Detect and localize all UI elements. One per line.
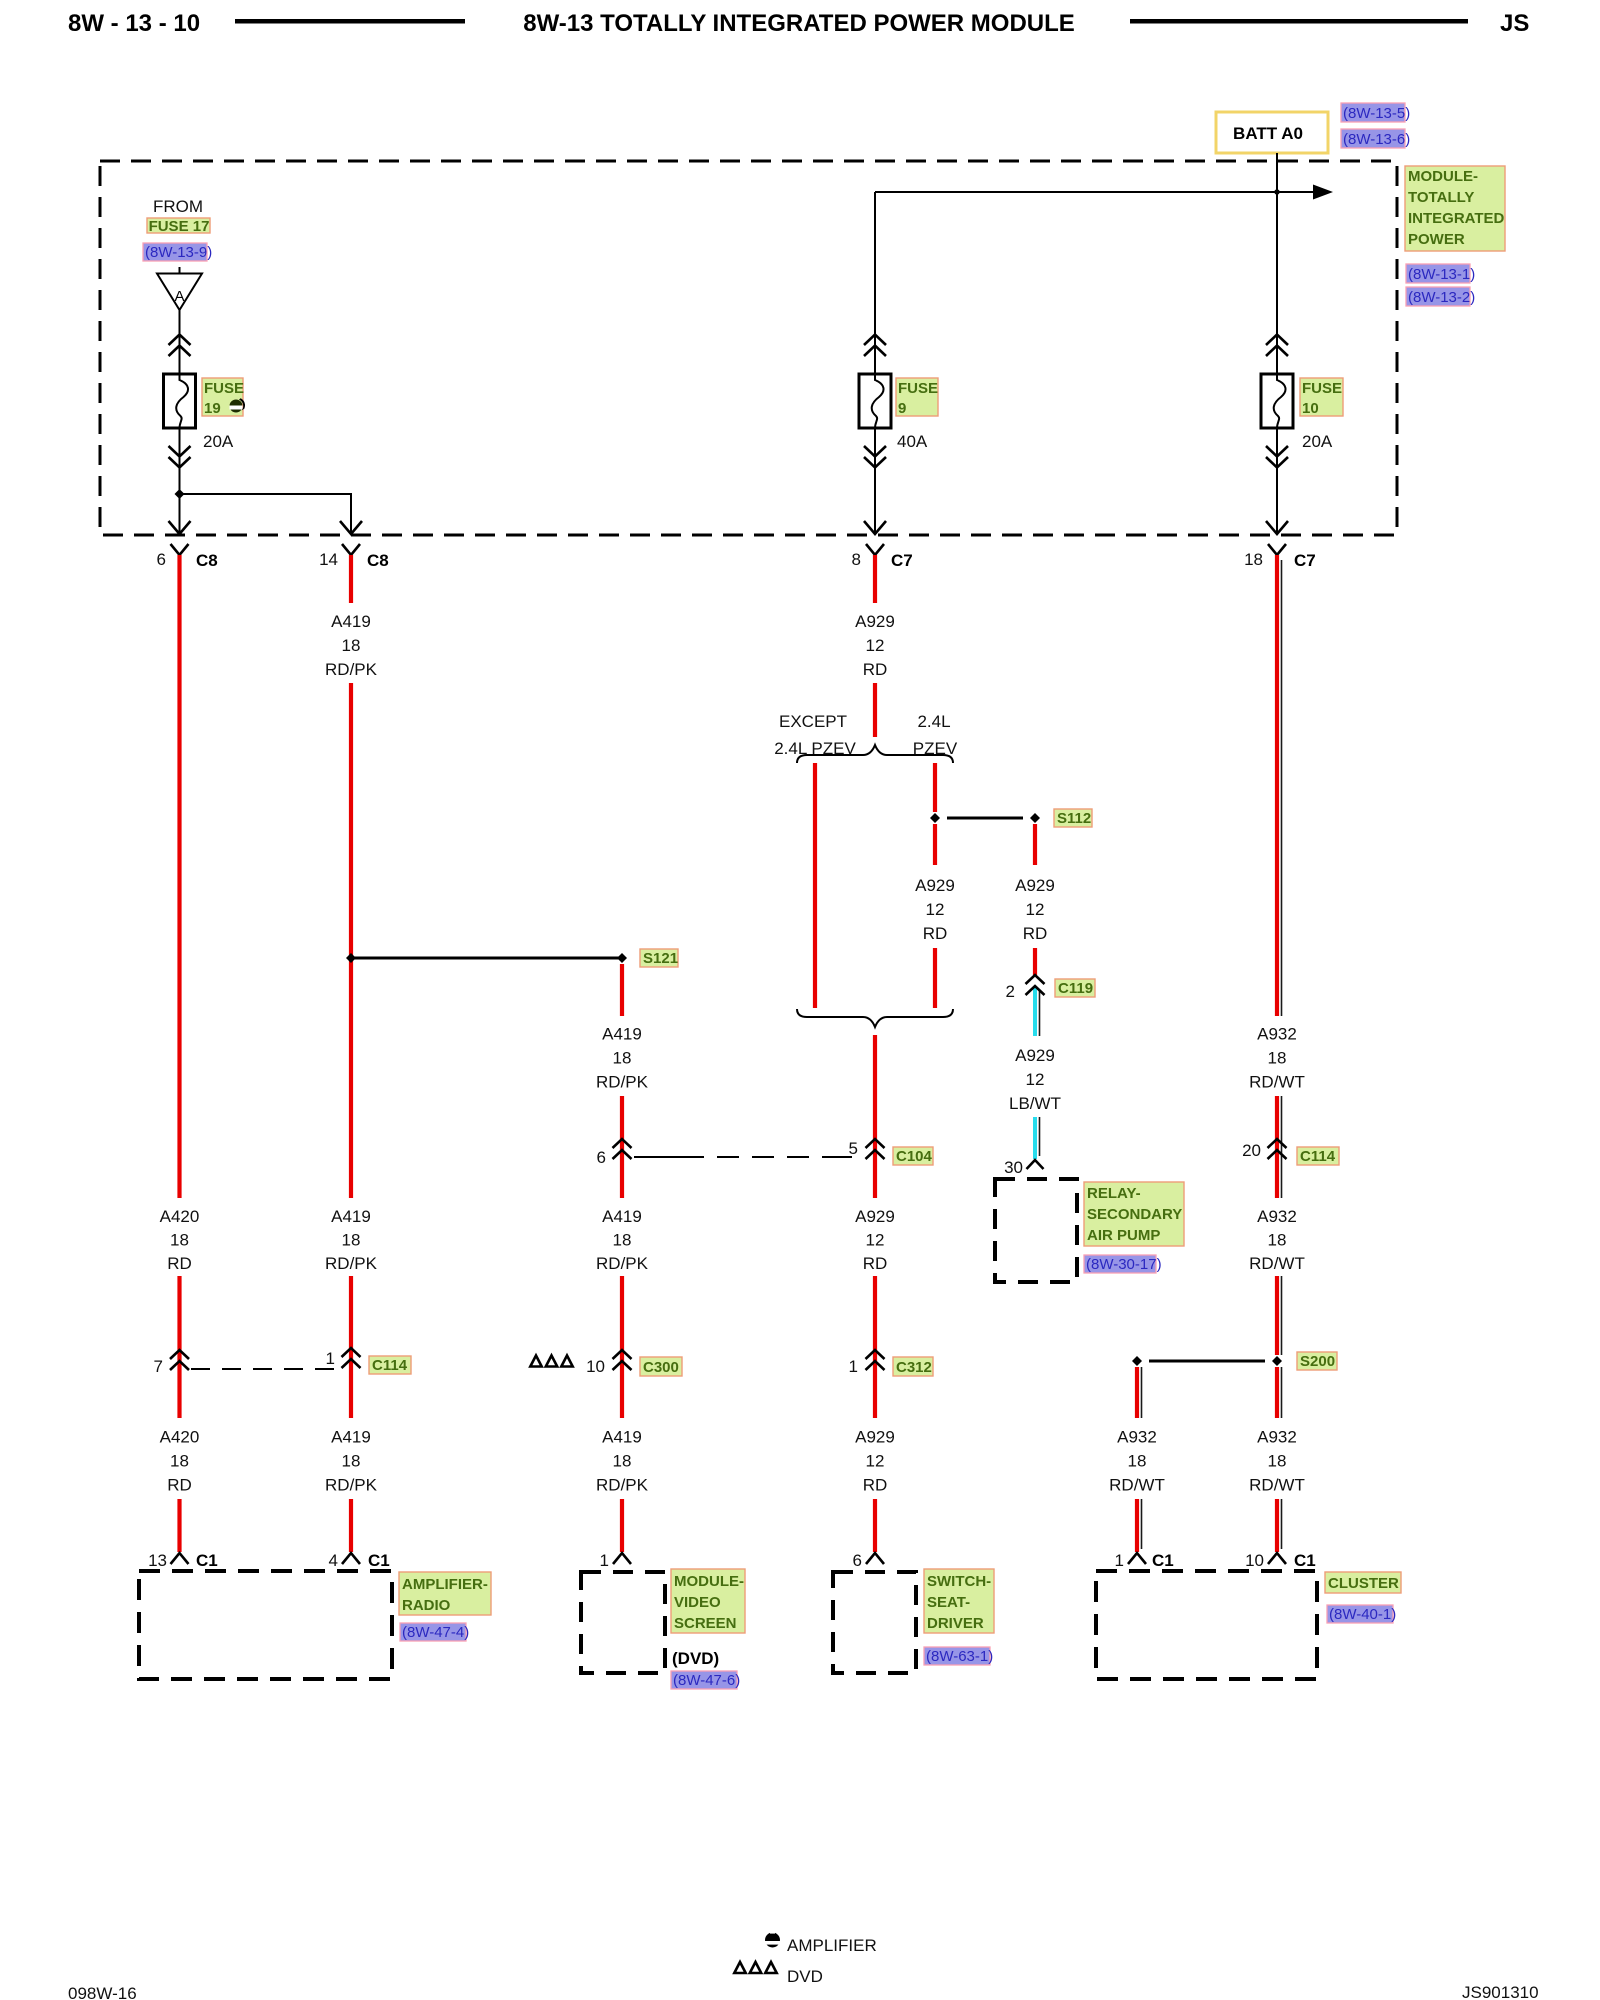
svg-text:EXCEPT: EXCEPT — [779, 712, 847, 731]
svg-text:C114: C114 — [372, 1357, 408, 1374]
amplifier-radio dashed box — [139, 1571, 392, 1679]
feed wire to fuse 9 with junction arrow — [875, 191, 1313, 193]
svg-text:RD: RD — [167, 1476, 192, 1495]
svg-text:1: 1 — [849, 1357, 858, 1376]
svg-text:A419: A419 — [602, 1025, 642, 1044]
exit arrowhead at C8 pin 6 — [169, 521, 191, 534]
svg-text:A929: A929 — [1015, 1046, 1055, 1065]
svg-text:(8W-63-1): (8W-63-1) — [926, 1648, 993, 1665]
fuse 19 rating 20A — [203, 432, 234, 451]
component label AMPLIFIER-RADIO — [399, 1572, 491, 1615]
wire label A420 18 RD lower — [160, 1428, 200, 1495]
reference label (8W-13-9) — [143, 243, 212, 261]
svg-text:18: 18 — [613, 1231, 632, 1250]
svg-text:FUSE: FUSE — [204, 380, 244, 397]
svg-text:(8W-13-6): (8W-13-6) — [1343, 131, 1410, 148]
component label RELAY-SECONDARY AIR PUMP — [1084, 1182, 1184, 1246]
connector cluster C1 pin 10 — [1245, 1551, 1316, 1570]
svg-text:(8W-47-6): (8W-47-6) — [673, 1672, 740, 1689]
connector label C300 — [640, 1357, 682, 1376]
svg-text:VIDEO: VIDEO — [674, 1594, 721, 1611]
svg-text:18: 18 — [1268, 1231, 1287, 1250]
svg-text:C300: C300 — [643, 1359, 679, 1376]
wire label A419 18 RD/PK lower — [325, 1428, 378, 1495]
wire label A929 12 RD PZEV branch — [915, 876, 955, 943]
svg-text:A419: A419 — [331, 612, 371, 631]
wire A929 RD except-PZEV branch — [813, 763, 817, 1008]
footer sheet number 098W-16 — [68, 1984, 137, 2000]
wire from triangle A to fuse 19 — [179, 310, 181, 374]
wire label A932 18 RD/WT mid — [1249, 1207, 1305, 1273]
connector C8 pin 6 — [157, 544, 218, 570]
splice S200 junction right — [1272, 1356, 1282, 1366]
svg-text:DVD: DVD — [787, 1967, 823, 1986]
splice label S121 — [640, 949, 678, 967]
cluster dashed box — [1096, 1571, 1317, 1679]
splice label S112 — [1054, 809, 1092, 827]
reference label (8W-40-1) — [1327, 1605, 1396, 1623]
svg-text:10: 10 — [586, 1357, 605, 1376]
svg-text:SECONDARY: SECONDARY — [1087, 1206, 1182, 1223]
wire fuse 19 to junction — [179, 428, 181, 494]
svg-text:LB/WT: LB/WT — [1009, 1094, 1061, 1113]
legend DVD triangles — [734, 1962, 776, 1973]
connector label C114 lower — [369, 1356, 411, 1374]
connector chevrons above fuse 9 — [864, 335, 886, 357]
fuse F9 symbol — [859, 374, 891, 428]
splice S112 junction right — [1030, 813, 1040, 823]
wire A929 RD PZEV branch below S112 — [933, 824, 937, 865]
svg-text:A419: A419 — [331, 1428, 371, 1447]
fuse F19 symbol — [164, 374, 196, 428]
svg-text:RADIO: RADIO — [402, 1597, 451, 1614]
svg-text:2: 2 — [1006, 982, 1015, 1001]
svg-text:12: 12 — [866, 636, 885, 655]
splice S112 junction left — [930, 813, 940, 823]
wire label A420 18 RD — [160, 1207, 200, 1273]
svg-text:CLUSTER: CLUSTER — [1328, 1575, 1399, 1592]
connector C1 pin 13 — [148, 1551, 218, 1570]
wire A929 RD S112 branch upper — [1033, 824, 1037, 865]
wire A929 RD to C119 — [1033, 948, 1037, 975]
svg-text:MODULE-: MODULE- — [1408, 168, 1478, 185]
svg-text:2.4L: 2.4L — [917, 712, 950, 731]
connector label C312 — [893, 1357, 933, 1376]
connector C312 pin 1 chevrons — [849, 1350, 885, 1376]
svg-text:C104: C104 — [896, 1148, 933, 1165]
fuse 10 rating 20A — [1302, 432, 1333, 451]
svg-text:RD/PK: RD/PK — [325, 1476, 378, 1495]
connector chevrons below fuse 19 — [169, 446, 191, 468]
exit arrowhead at C7 pin 8 — [864, 521, 886, 534]
connector label C119 — [1055, 979, 1095, 997]
module TIPM dashed boundary box — [100, 161, 1397, 535]
svg-text:12: 12 — [1026, 1070, 1045, 1089]
svg-text:18: 18 — [342, 1452, 361, 1471]
svg-text:C8: C8 — [196, 551, 218, 570]
svg-text:A929: A929 — [855, 612, 895, 631]
connector C7 pin 18 — [1244, 544, 1316, 570]
wire label A929 12 RD top — [855, 612, 895, 679]
text EXCEPT 2.4L PZEV — [774, 712, 856, 758]
svg-text:POWER: POWER — [1408, 231, 1465, 248]
svg-text:19: 19 — [204, 400, 221, 417]
svg-text:A929: A929 — [915, 876, 955, 895]
svg-text:JS901310: JS901310 — [1462, 1983, 1539, 2000]
svg-text:SEAT-: SEAT- — [927, 1594, 970, 1611]
connector C7 pin 8 — [852, 544, 913, 570]
connector box BATT A0 — [1216, 112, 1328, 153]
svg-text:RD/PK: RD/PK — [596, 1254, 649, 1273]
connector C104 pin 5 chevrons — [849, 1139, 885, 1159]
legend text DVD — [787, 1967, 823, 1986]
branch wire junction to C8 pin 14 exit — [180, 494, 352, 533]
svg-text:7: 7 — [154, 1357, 163, 1376]
fuse label FUSE 10 — [1300, 378, 1343, 417]
wire label A929 12 LB/WT — [1009, 1046, 1061, 1113]
svg-text:18: 18 — [170, 1231, 189, 1250]
svg-text:RD/WT: RD/WT — [1249, 1254, 1305, 1273]
svg-text:(8W-47-4): (8W-47-4) — [402, 1624, 469, 1641]
svg-text:S112: S112 — [1057, 810, 1091, 827]
wire label A419 18 RD/PK above C300 — [596, 1207, 649, 1273]
svg-text:(8W-13-1): (8W-13-1) — [1408, 266, 1475, 283]
wire A929 LB/WT lower segment — [1035, 1117, 1040, 1159]
wire A419 RD/PK segment to video module — [620, 1499, 624, 1552]
svg-text:RD: RD — [863, 1254, 888, 1273]
svg-text:18: 18 — [1244, 550, 1263, 569]
reference label (8W-13-1) — [1406, 264, 1475, 283]
svg-text:C1: C1 — [368, 1551, 390, 1570]
svg-text:MODULE-: MODULE- — [674, 1573, 744, 1590]
svg-text:FUSE: FUSE — [1302, 380, 1342, 397]
reference label (8W-13-2) — [1406, 287, 1475, 306]
reference label (8W-13-5) — [1341, 103, 1410, 122]
svg-text:18: 18 — [613, 1452, 632, 1471]
wire label A929 12 RD above C312 — [855, 1207, 895, 1273]
reference label (8W-30-17) — [1084, 1255, 1162, 1273]
connector C104 pin 6 chevrons — [597, 1139, 632, 1167]
wire fuse 10 to C7 pin 18 exit — [1276, 428, 1278, 533]
text 2.4L PZEV — [913, 712, 958, 758]
connector C119 pin 2 chevrons — [1006, 975, 1045, 1001]
DVD triangle marks — [530, 1356, 572, 1367]
svg-text:RD/PK: RD/PK — [596, 1073, 649, 1092]
wire A420 RD segment through C114 — [177, 1276, 181, 1418]
reference label (8W-47-6) — [671, 1671, 740, 1689]
connector C114 pin 20 chevrons — [1242, 1139, 1286, 1160]
wire A932 RD/WT segment to S200 — [1277, 1276, 1282, 1355]
wire label A419 18 RD/PK S121 branch — [596, 1025, 649, 1092]
svg-text:A929: A929 — [855, 1428, 895, 1447]
svg-text:14: 14 — [319, 550, 338, 569]
svg-text:13: 13 — [148, 1551, 167, 1570]
fuse label FUSE 9 — [896, 378, 938, 417]
wire A929 RD segment through C312 — [873, 1276, 877, 1418]
svg-text:9: 9 — [898, 400, 906, 417]
svg-text:10: 10 — [1302, 400, 1319, 417]
wire A929 RD merged segment — [873, 1035, 877, 1198]
svg-text:1: 1 — [326, 1349, 335, 1368]
svg-text:12: 12 — [926, 900, 945, 919]
svg-text:AMPLIFIER: AMPLIFIER — [787, 1936, 877, 1955]
svg-text:C312: C312 — [896, 1359, 932, 1376]
connector C1 pin 4 — [329, 1551, 390, 1570]
splice S121 junction left — [346, 953, 356, 963]
svg-text:12: 12 — [1026, 900, 1045, 919]
connector cluster C1 pin 1 — [1115, 1551, 1174, 1570]
svg-text:A932: A932 — [1257, 1207, 1297, 1226]
wire label A929 12 RD bottom — [855, 1428, 895, 1495]
svg-text:AMPLIFIER-: AMPLIFIER- — [402, 1576, 488, 1593]
connector C8 pin 14 — [319, 544, 389, 570]
svg-text:SWITCH-: SWITCH- — [927, 1573, 991, 1590]
wire A419 RD/PK segment from S121 — [620, 964, 624, 1016]
svg-text:18: 18 — [1268, 1452, 1287, 1471]
connector C114 pin 7 chevrons — [154, 1350, 189, 1376]
svg-text:20A: 20A — [203, 432, 234, 451]
svg-text:6: 6 — [853, 1551, 862, 1570]
svg-text:4: 4 — [329, 1551, 338, 1570]
text FROM — [153, 197, 203, 216]
svg-text:RELAY-: RELAY- — [1087, 1185, 1141, 1202]
reference label (8W-47-4) — [400, 1623, 469, 1641]
svg-text:(8W-13-9): (8W-13-9) — [145, 244, 212, 261]
svg-text:FROM: FROM — [153, 197, 203, 216]
footer code JS901310 — [1462, 1983, 1539, 2000]
svg-text:12: 12 — [866, 1231, 885, 1250]
svg-text:JS: JS — [1500, 10, 1529, 37]
svg-text:18: 18 — [342, 636, 361, 655]
wire junction to C8 pin 6 exit — [179, 494, 181, 533]
svg-text:18: 18 — [1128, 1452, 1147, 1471]
connector video module pin 1 — [600, 1551, 631, 1570]
exit arrowhead at C7 pin 18 — [1266, 521, 1288, 534]
splice S121 link wire — [351, 957, 622, 960]
svg-text:098W-16: 098W-16 — [68, 1984, 137, 2000]
svg-text:S200: S200 — [1300, 1353, 1335, 1370]
svg-text:A929: A929 — [855, 1207, 895, 1226]
svg-text:18: 18 — [1268, 1049, 1287, 1068]
svg-text:C1: C1 — [196, 1551, 218, 1570]
svg-text:RD: RD — [167, 1254, 192, 1273]
svg-text:20: 20 — [1242, 1141, 1261, 1160]
connector chevrons below fuse 10 — [1266, 446, 1288, 468]
splice label S200 — [1297, 1352, 1337, 1370]
connector label C114 upper — [1297, 1147, 1339, 1165]
svg-text:RD/WT: RD/WT — [1109, 1476, 1165, 1495]
legend text AMPLIFIER — [787, 1936, 877, 1955]
wire A420 RD segment to C1-13 — [177, 1499, 181, 1552]
svg-text:6: 6 — [157, 550, 166, 569]
video module dashed box — [581, 1572, 665, 1673]
svg-text:A932: A932 — [1257, 1025, 1297, 1044]
wire down to fuse 9 — [874, 192, 876, 374]
wire A932 RD/WT below S200 — [1277, 1367, 1282, 1418]
connector C114 pin 1 chevrons — [326, 1348, 361, 1368]
svg-text:12: 12 — [866, 1452, 885, 1471]
wire label A932 18 RD/WT left bottom — [1109, 1428, 1165, 1495]
svg-text:A419: A419 — [331, 1207, 371, 1226]
connector C300 pin 10 chevrons — [586, 1350, 631, 1376]
svg-text:A932: A932 — [1117, 1428, 1157, 1447]
svg-text:A: A — [174, 288, 184, 305]
fuse F10 symbol — [1261, 374, 1293, 428]
svg-text:10: 10 — [1245, 1551, 1264, 1570]
svg-text:1: 1 — [600, 1551, 609, 1570]
wire A929 RD segment to seat switch — [873, 1499, 877, 1552]
dashed link C114 — [191, 1368, 338, 1370]
wire A929 RD PZEV branch upper — [933, 763, 937, 812]
seat switch dashed box — [833, 1572, 916, 1673]
svg-text:(8W-30-17): (8W-30-17) — [1086, 1256, 1162, 1273]
svg-text:8: 8 — [852, 550, 861, 569]
svg-text:DRIVER: DRIVER — [927, 1615, 984, 1632]
svg-text:RD: RD — [923, 924, 948, 943]
svg-text:INTEGRATED: INTEGRATED — [1408, 210, 1505, 227]
svg-text:1: 1 — [1115, 1551, 1124, 1570]
relay terminal 30 connector — [1004, 1158, 1043, 1177]
dashed link C104 — [634, 1156, 858, 1158]
component label MODULE-TOTALLY INTEGRATED POWER — [1405, 166, 1505, 251]
split brace upper — [797, 745, 953, 763]
fuse label FUSE 19 with amplifier icon — [202, 378, 245, 417]
wire A929 LB/WT upper segment — [1035, 986, 1040, 1036]
header rule right — [1130, 19, 1468, 24]
svg-text:RD/WT: RD/WT — [1249, 1073, 1305, 1092]
reference label (8W-63-1) — [924, 1647, 993, 1665]
svg-text:20A: 20A — [1302, 432, 1333, 451]
svg-text:S121: S121 — [643, 950, 678, 967]
splice S121 junction right — [617, 953, 627, 963]
svg-text:(8W-13-5): (8W-13-5) — [1343, 105, 1410, 122]
svg-text:40A: 40A — [897, 432, 928, 451]
exit arrowhead at C8 pin 14 — [340, 521, 362, 534]
svg-text:8W-13 TOTALLY INTEGRATED POWER: 8W-13 TOTALLY INTEGRATED POWER MODULE — [523, 10, 1075, 37]
svg-text:RD/PK: RD/PK — [325, 1254, 378, 1273]
splice S112 link wire — [947, 817, 1023, 820]
connector chevrons above fuse 10 — [1266, 335, 1288, 357]
svg-text:C8: C8 — [367, 551, 389, 570]
svg-text:(8W-40-1): (8W-40-1) — [1329, 1606, 1396, 1623]
svg-text:A419: A419 — [602, 1207, 642, 1226]
svg-text:A419: A419 — [602, 1428, 642, 1447]
junction dot below fuse 19 — [175, 489, 185, 499]
component label MODULE-VIDEO SCREEN — [671, 1569, 745, 1633]
connector chevrons below fuse 9 — [864, 446, 886, 468]
svg-text:FUSE: FUSE — [898, 380, 938, 397]
svg-text:(8W-13-2): (8W-13-2) — [1408, 289, 1475, 306]
wire A419 RD/PK segment through C114 — [349, 1276, 353, 1418]
relay dashed box — [995, 1179, 1077, 1282]
component label SWITCH-SEAT-DRIVER — [924, 1569, 994, 1633]
wire A420 RD segment from C8-6 — [177, 555, 181, 1198]
splice S200 junction left — [1132, 1356, 1142, 1366]
svg-text:18: 18 — [613, 1049, 632, 1068]
svg-text:RD/PK: RD/PK — [596, 1476, 649, 1495]
svg-text:C1: C1 — [1294, 1551, 1316, 1570]
merge brace lower — [797, 1009, 953, 1027]
component label CLUSTER — [1325, 1572, 1401, 1593]
svg-text:(DVD): (DVD) — [672, 1649, 719, 1668]
svg-text:C114: C114 — [1300, 1148, 1336, 1165]
wire A932 RD/WT to cluster C1-1 — [1137, 1499, 1142, 1552]
wire label A929 12 RD S112 branch — [1015, 876, 1055, 943]
connector label C104 — [893, 1147, 933, 1165]
svg-text:5: 5 — [849, 1139, 858, 1158]
svg-text:C7: C7 — [891, 551, 913, 570]
wire A419 RD/PK segment through C300 — [620, 1276, 624, 1418]
wire A929 RD segment from C7-8 — [873, 555, 877, 603]
wire A929 RD segment to split brace — [873, 683, 877, 737]
wire A419 RD/PK segment from C8-14 — [349, 555, 353, 603]
svg-text:C7: C7 — [1294, 551, 1316, 570]
svg-text:FUSE 17: FUSE 17 — [149, 218, 210, 235]
svg-text:SCREEN: SCREEN — [674, 1615, 737, 1632]
svg-text:18: 18 — [170, 1452, 189, 1471]
feed arrowhead — [1313, 185, 1333, 200]
svg-text:6: 6 — [597, 1148, 606, 1167]
svg-text:8W - 13 - 10: 8W - 13 - 10 — [68, 10, 200, 37]
junction dot at battery feed — [1274, 189, 1279, 194]
svg-text:C1: C1 — [1152, 1551, 1174, 1570]
svg-text:TOTALLY: TOTALLY — [1408, 189, 1474, 206]
wire A932 RD/WT from C7-18 — [1277, 555, 1282, 1016]
reference label (8W-13-6) — [1341, 129, 1410, 148]
connector chevrons above fuse 19 — [169, 335, 191, 357]
off-page triangle A — [157, 267, 202, 310]
splice S200 link wire — [1149, 1360, 1265, 1363]
svg-text:A420: A420 — [160, 1428, 200, 1447]
svg-text:RD: RD — [1023, 924, 1048, 943]
text (DVD) — [672, 1649, 719, 1668]
wire label A932 18 RD/WT right bottom — [1249, 1428, 1305, 1495]
connector seat switch pin 6 — [853, 1551, 884, 1570]
svg-text:30: 30 — [1004, 1158, 1023, 1177]
legend amplifier icon — [765, 1932, 781, 1948]
svg-text:AIR PUMP: AIR PUMP — [1087, 1227, 1160, 1244]
wire label A932 18 RD/WT top — [1249, 1025, 1305, 1092]
svg-text:RD: RD — [863, 1476, 888, 1495]
svg-text:A420: A420 — [160, 1207, 200, 1226]
source label FUSE 17 — [147, 218, 210, 235]
wire label A419 18 RD/PK top — [325, 612, 378, 679]
wire A932 RD/WT S200 branch upper — [1137, 1367, 1142, 1418]
svg-text:C119: C119 — [1058, 980, 1093, 997]
wire A419 RD/PK segment to C1-4 — [349, 1499, 353, 1552]
wire A932 RD/WT segment through C114-20 — [1277, 1096, 1282, 1198]
svg-text:18: 18 — [342, 1231, 361, 1250]
svg-text:RD/PK: RD/PK — [325, 660, 378, 679]
svg-text:RD/WT: RD/WT — [1249, 1476, 1305, 1495]
wire A929 RD PZEV branch lower — [933, 948, 937, 1008]
battery feed wire from BATT A0 — [1276, 153, 1278, 374]
wire label A419 18 RD/PK bottom — [596, 1428, 649, 1495]
wire A419 RD/PK segment to S121 and on — [349, 683, 353, 1198]
svg-text:BATT A0: BATT A0 — [1233, 124, 1303, 143]
wire fuse 9 to C7 pin 8 exit — [874, 428, 876, 533]
svg-text:A929: A929 — [1015, 876, 1055, 895]
svg-text:RD: RD — [863, 660, 888, 679]
fuse 9 rating 40A — [897, 432, 928, 451]
wire A419 RD/PK segment through C300 zone — [620, 1096, 624, 1198]
header rule left — [235, 19, 465, 24]
wire A932 RD/WT to cluster C1-10 — [1277, 1499, 1282, 1552]
svg-text:A932: A932 — [1257, 1428, 1297, 1447]
wire label A419 18 RD/PK mid — [325, 1207, 378, 1273]
